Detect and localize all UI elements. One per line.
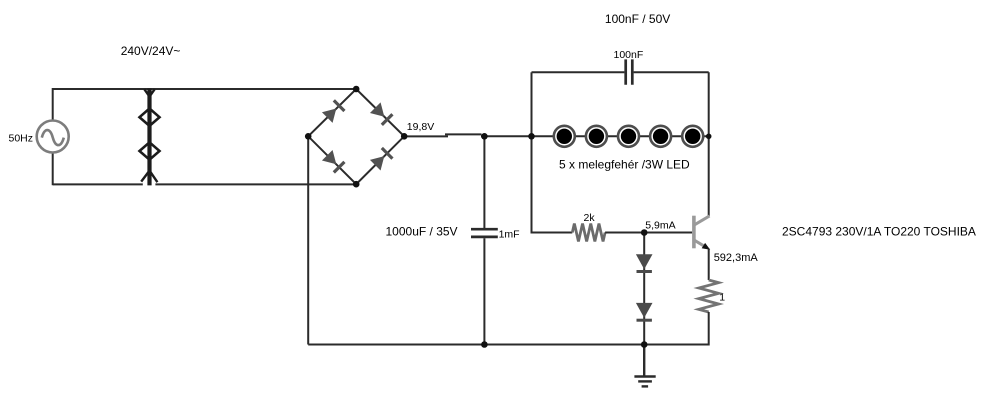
resistor R2 (1) (699, 280, 719, 312)
resistor R1 (2k) (572, 224, 605, 242)
wire: bottom rail from source to bridge bottom (53, 183, 357, 185)
node: base / diode chain junction (641, 229, 648, 236)
ground (634, 345, 655, 387)
svg-text:19,8V: 19,8V (407, 121, 434, 133)
diode D5 (636, 254, 653, 271)
wire: resistor bottom to rail (708, 312, 710, 346)
wire: LED loop right vertical down to collector (708, 72, 710, 216)
wire: LED row (532, 135, 709, 137)
wire: LED loop top with cap gap (532, 71, 709, 73)
transistor Q1 (694, 216, 710, 250)
capacitor C1 plates (1mF) (471, 229, 498, 237)
LED3 (618, 126, 639, 147)
capacitor C1 leads (483, 136, 485, 344)
wire: diode chain vertical (643, 233, 645, 345)
LED2 (586, 126, 607, 147)
ac source V1 (37, 121, 69, 153)
node: bridge bottom (353, 181, 360, 188)
node: LED right junction (706, 134, 712, 140)
node: LED branch left junction (528, 133, 535, 140)
svg-text:592,3mA: 592,3mA (714, 252, 759, 264)
diode D4 (bridge bottom-right) (370, 148, 392, 170)
node: cap C1 bottom junction (481, 341, 488, 348)
LED5 (682, 126, 703, 147)
wire: base line left lead (531, 232, 573, 234)
capacitor C2 plates (100nF) (626, 59, 633, 84)
wire: bridge diamond edges (308, 89, 404, 184)
LED4 (650, 126, 671, 147)
svg-text:1mF: 1mF (499, 229, 520, 241)
node: bridge right (401, 133, 408, 140)
wire: bridge output to cap junction (with jog) (404, 135, 448, 137)
svg-text:5,9mA: 5,9mA (645, 219, 675, 231)
wire: cap junction to LED branch junction (481, 135, 532, 137)
wire: base line right lead (605, 232, 692, 234)
svg-text:2k: 2k (584, 212, 596, 224)
svg-text:1: 1 (719, 292, 725, 304)
LED1 (554, 126, 575, 147)
wire: top rail from source to bridge top (53, 88, 357, 90)
transformer T1 (140, 89, 160, 186)
node: ground junction (641, 341, 648, 348)
diode D1 (bridge top-left) (322, 100, 344, 122)
svg-text:100nF: 100nF (614, 49, 644, 61)
node: bridge top (353, 86, 360, 93)
svg-text:240V/24V~: 240V/24V~ (121, 44, 181, 58)
wire: LED loop left vertical (531, 72, 533, 136)
diode D2 (bridge top-right) (370, 102, 392, 124)
node: cap C1 top junction (481, 133, 488, 140)
svg-text:5 x melegfehér /3W LED: 5 x melegfehér /3W LED (559, 157, 690, 171)
svg-text:2SC4793 230V/1A TO220 TOSHIBA: 2SC4793 230V/1A TO220 TOSHIBA (782, 224, 976, 238)
node: bridge left (305, 133, 312, 140)
svg-text:50Hz: 50Hz (9, 132, 34, 144)
wire: branch down from LED-left junction (531, 136, 533, 232)
wire: left vertical below AC source (52, 153, 54, 185)
wire: left vertical above AC source (52, 88, 54, 120)
svg-text:100nF / 50V: 100nF / 50V (605, 12, 670, 26)
svg-text:1000uF / 35V: 1000uF / 35V (386, 224, 458, 238)
wire: emitter down to resistor (708, 249, 710, 281)
wire: left node drop to bottom rail (307, 136, 309, 344)
wire: bottom rail (308, 344, 709, 346)
diode D3 (bridge bottom-left) (322, 150, 344, 172)
diode D6 (636, 303, 653, 320)
